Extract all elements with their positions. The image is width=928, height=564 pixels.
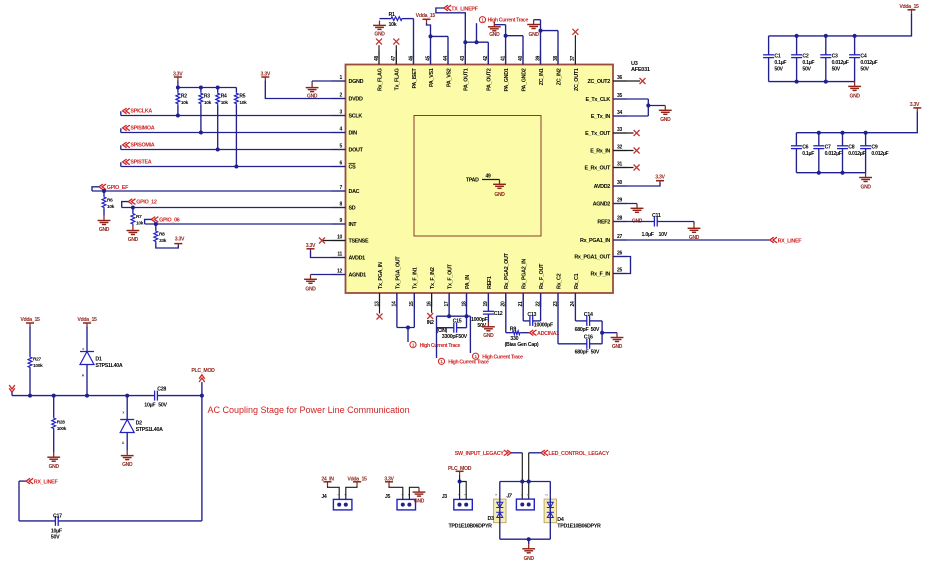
svg-text:C4: C4 xyxy=(860,54,866,60)
resistor R7 10k xyxy=(131,208,144,227)
svg-text:C17: C17 xyxy=(53,514,62,520)
svg-text:AFE031: AFE031 xyxy=(631,67,650,73)
svg-text:Vdda_15: Vdda_15 xyxy=(416,13,436,19)
wire C14/C16 to ground xyxy=(600,321,617,344)
svg-text:GND: GND xyxy=(483,333,494,339)
svg-text:10k: 10k xyxy=(221,100,229,106)
svg-text:GND: GND xyxy=(128,237,139,243)
svg-text:50V: 50V xyxy=(832,67,841,73)
svg-text:DGND: DGND xyxy=(349,79,364,85)
svg-text:10k: 10k xyxy=(136,221,144,227)
no-connect X pin 47 xyxy=(393,39,399,65)
wire cap bank bottom rail xyxy=(769,80,855,84)
wire PLC_MOD vertical xyxy=(201,382,203,521)
port ADCINA1 xyxy=(529,330,559,337)
svg-text:Tx_F_IN1: Tx_F_IN1 xyxy=(413,267,419,289)
wire cap bank 2 bottom rail xyxy=(796,171,865,175)
svg-text:x: x xyxy=(122,411,124,415)
svg-text:3.3V: 3.3V xyxy=(306,243,316,249)
svg-text:Rx_F_IN: Rx_F_IN xyxy=(591,271,611,277)
svg-text:J4: J4 xyxy=(321,494,327,500)
svg-text:SPISOMIA: SPISOMIA xyxy=(130,143,154,149)
diode D2 STPS1L40A xyxy=(120,396,163,451)
svg-text:D4: D4 xyxy=(557,517,564,523)
wire pin 12 AGND1 to ground xyxy=(311,274,346,276)
no-connect X pin 37 xyxy=(572,29,578,65)
svg-text:ZC_IN2: ZC_IN2 xyxy=(556,68,562,85)
wire pin 27 Rx_PGA1_IN to RX_LINEF xyxy=(613,239,770,241)
port LED_CONTROL_LEGACY xyxy=(541,450,610,457)
svg-text:R27: R27 xyxy=(33,357,42,363)
no-connect X pin 33 xyxy=(613,130,640,136)
capacitor C14 680pF 50V xyxy=(575,293,603,333)
svg-text:C12: C12 xyxy=(494,311,503,317)
power 3.3V (AVDD2) xyxy=(655,175,665,183)
power 3.3V (DVDD) xyxy=(261,71,271,80)
capacitor C1 0.1µF 50V xyxy=(763,36,786,82)
wire J3 pins to PLC_MOD xyxy=(458,475,467,500)
svg-text:DVDD: DVDD xyxy=(349,96,363,102)
svg-text:E_Tx_IN: E_Tx_IN xyxy=(591,114,611,120)
ESD diode D4 TPD1E10B06DPYR xyxy=(544,482,601,540)
wire 3.3V to pin 30 AVDD2 xyxy=(613,183,660,187)
connector J5 xyxy=(385,494,416,510)
svg-text:ADCINA1: ADCINA1 xyxy=(537,331,559,337)
wire SPISIMOA to IC xyxy=(121,132,346,134)
pin 49 TPAD with ground xyxy=(466,173,506,198)
svg-text:R6: R6 xyxy=(107,198,113,204)
power PLC_MOD (J3) xyxy=(448,466,472,475)
svg-text:PA_IN: PA_IN xyxy=(465,275,471,289)
svg-text:50V: 50V xyxy=(802,67,811,73)
svg-text:GND: GND xyxy=(307,93,318,99)
svg-text:TPAD: TPAD xyxy=(466,178,479,184)
wire Rx_PGA1_OUT to Rx_F_IN xyxy=(613,257,631,274)
power 3.3V (cap bank 2) xyxy=(910,102,922,112)
wire Vdda_15 to pins 45,44 xyxy=(427,23,449,65)
connector J4 xyxy=(321,494,352,510)
wire Vdda_15 cap bank rail xyxy=(769,13,912,38)
wire SW_INPUT_LEGACY down xyxy=(511,453,524,499)
svg-text:IN2: IN2 xyxy=(427,320,434,326)
svg-text:A: A xyxy=(122,441,125,445)
IC U3 AFE031 xyxy=(332,51,650,308)
svg-text:J5: J5 xyxy=(385,494,391,500)
svg-text:3.3V: 3.3V xyxy=(910,102,920,108)
ground (DGND) xyxy=(306,81,319,99)
svg-text:Rx_C2: Rx_C2 xyxy=(556,273,562,289)
wire 3.3V cap bank rail xyxy=(796,111,917,134)
svg-text:34: 34 xyxy=(617,110,622,116)
no-connect X pin 13 xyxy=(377,293,383,320)
wire SPISTEA to IC xyxy=(121,166,346,168)
power 3.3V (SPI pull-ups) xyxy=(173,71,183,80)
connector J7 xyxy=(506,493,534,510)
svg-text:10k: 10k xyxy=(181,100,189,106)
svg-text:0.012µF: 0.012µF xyxy=(871,151,888,157)
wire SPISOMIA to IC xyxy=(121,149,346,151)
marker High Current Trace (3) xyxy=(473,353,524,360)
svg-text:28: 28 xyxy=(617,216,622,222)
svg-text:E_Tx_OUT: E_Tx_OUT xyxy=(585,131,611,137)
svg-text:R1: R1 xyxy=(389,12,396,18)
port SPISTEA xyxy=(121,159,152,166)
svg-text:100k: 100k xyxy=(33,363,43,369)
svg-text:50V: 50V xyxy=(591,350,600,356)
svg-text:10k: 10k xyxy=(389,22,397,28)
svg-text:x: x xyxy=(82,347,84,351)
svg-text:R2: R2 xyxy=(181,94,187,100)
svg-text:RX_LINEF: RX_LINEF xyxy=(34,480,59,486)
svg-text:SD: SD xyxy=(349,205,356,211)
capacitor C9 0.012µF xyxy=(860,133,888,173)
svg-text:SPISTEA: SPISTEA xyxy=(130,160,151,166)
svg-text:R3: R3 xyxy=(204,94,210,100)
capacitor C12 1000pF 50V xyxy=(471,293,503,329)
resistor R8 33k xyxy=(154,224,167,244)
port SPISOMIA xyxy=(121,142,155,149)
svg-text:GND: GND xyxy=(849,94,860,100)
svg-text:R9: R9 xyxy=(510,327,517,333)
capacitor C11 1.0uF xyxy=(642,213,695,238)
svg-text:CS: CS xyxy=(349,164,357,170)
wire TX_LINEPF to pins 43,42 xyxy=(436,8,488,65)
wire SPICLKA to IC xyxy=(121,115,346,117)
svg-text:PA_OUT1: PA_OUT1 xyxy=(464,68,470,91)
diode D1 STPS1L40A xyxy=(80,327,123,396)
marker High Current Trace (top) xyxy=(479,17,528,24)
svg-text:0.1µF: 0.1µF xyxy=(802,151,814,157)
resistor R5 10k xyxy=(234,88,247,169)
svg-text:PA_GND1: PA_GND1 xyxy=(504,68,510,91)
resistor R2 10k xyxy=(176,88,189,118)
svg-text:3.3V: 3.3V xyxy=(655,175,665,181)
svg-text:GPIO_EF: GPIO_EF xyxy=(107,185,129,191)
wire GPIO_12 to pin 8 SD xyxy=(122,206,346,210)
svg-text:C28: C28 xyxy=(157,386,166,392)
svg-text:GND: GND xyxy=(414,499,425,505)
svg-text:Vdda_15: Vdda_15 xyxy=(77,317,97,323)
svg-text:Rx_C1: Rx_C1 xyxy=(574,273,580,289)
svg-text:TSENSE: TSENSE xyxy=(349,238,369,244)
port GPIO_EF xyxy=(92,184,129,191)
svg-text:33k: 33k xyxy=(159,238,167,244)
svg-text:D3: D3 xyxy=(488,516,495,522)
ground (C6-C9) xyxy=(859,173,872,191)
resistor R6 10k xyxy=(102,191,115,216)
no-connect X pin 16 xyxy=(427,293,434,326)
svg-text:C7: C7 xyxy=(825,145,831,151)
ground (AGND1) xyxy=(304,275,317,293)
wire REF2 to C11 xyxy=(613,221,654,223)
ground (R28) xyxy=(47,452,60,469)
wire R1 to pin 46 xyxy=(413,19,415,65)
resistor R28 100k xyxy=(52,396,67,453)
svg-text:10µF: 10µF xyxy=(51,528,63,534)
ground (AGND2) xyxy=(631,204,644,225)
svg-text:TPD1E10B06DPYR: TPD1E10B06DPYR xyxy=(449,524,493,530)
svg-text:Rx_PGA1_IN: Rx_PGA1_IN xyxy=(580,238,610,244)
svg-text:ZC_OUT1: ZC_OUT1 xyxy=(574,68,580,91)
capacitor C28 10uF 50V xyxy=(144,386,167,408)
svg-text:GND: GND xyxy=(612,344,623,350)
svg-text:TX_LINEPF: TX_LINEPF xyxy=(451,6,478,12)
marker High Current Trace (1) xyxy=(410,342,461,349)
svg-text:C2: C2 xyxy=(802,54,808,60)
svg-text:25: 25 xyxy=(617,268,622,274)
ground (ZC_IN) xyxy=(527,20,540,38)
svg-text:0.012µF: 0.012µF xyxy=(825,151,842,157)
svg-text:C13: C13 xyxy=(527,312,536,318)
no-connect X pin 48 xyxy=(376,39,382,65)
wire pin 29 AGND2 to ground xyxy=(613,203,637,205)
power 24_IN xyxy=(321,476,334,485)
svg-text:32: 32 xyxy=(617,145,622,151)
capacitor C2 0.1µF 50V xyxy=(791,36,814,82)
svg-text:GND: GND xyxy=(489,32,500,38)
svg-text:0.1µF: 0.1µF xyxy=(802,60,814,66)
svg-text:TPD1E10B06DPYR: TPD1E10B06DPYR xyxy=(557,524,601,530)
svg-text:PLC_MOD: PLC_MOD xyxy=(191,368,215,374)
svg-text:D1: D1 xyxy=(95,357,102,363)
ground (ESD) xyxy=(522,544,535,562)
wire ESD top rail xyxy=(500,481,551,483)
marker High Current Trace (2) xyxy=(438,358,489,365)
ground (R6) xyxy=(98,216,111,233)
svg-text:Tx_F_IN2: Tx_F_IN2 xyxy=(430,267,436,289)
wire 3.3V to pin 11 AVDD1 xyxy=(311,251,346,258)
resistor R9 330 xyxy=(506,293,530,342)
port SW_INPUT_LEGACY xyxy=(455,450,511,457)
svg-text:50V: 50V xyxy=(860,67,869,73)
svg-text:C11: C11 xyxy=(652,213,661,219)
svg-text:E_Rx_OUT: E_Rx_OUT xyxy=(585,165,611,171)
svg-text:GND: GND xyxy=(49,464,60,470)
svg-text:50V: 50V xyxy=(591,327,600,333)
svg-text:50V: 50V xyxy=(458,334,467,340)
label AC Coupling Stage xyxy=(208,405,410,415)
ground (R1 top-left) xyxy=(373,21,386,38)
svg-text:(Bias Gen Cap): (Bias Gen Cap) xyxy=(505,342,539,348)
power Vdda_15 (PA_VS) xyxy=(416,13,436,23)
svg-text:50V: 50V xyxy=(158,403,167,409)
svg-text:11: 11 xyxy=(337,252,342,258)
wire ZC_IN1/ZC_IN2 to ground xyxy=(534,20,558,65)
power 3.3V (J5) xyxy=(384,476,394,485)
power PLC_MOD (AC stage) xyxy=(191,368,215,382)
svg-text:Tx_FLAG: Tx_FLAG xyxy=(395,68,401,90)
svg-text:0.1µF: 0.1µF xyxy=(774,60,786,66)
svg-text:SPICLKA: SPICLKA xyxy=(130,109,152,115)
no-connect X pin 31 xyxy=(613,165,640,171)
resistor R4 10k xyxy=(216,88,229,152)
power 3.3V (R8 pull) xyxy=(174,237,185,245)
ground (C1-C4) xyxy=(848,82,861,100)
svg-text:R7: R7 xyxy=(136,214,142,220)
svg-text:10k: 10k xyxy=(107,204,115,210)
svg-text:10k: 10k xyxy=(204,100,212,106)
svg-text:50V: 50V xyxy=(774,67,783,73)
svg-text:GND: GND xyxy=(305,287,316,293)
svg-text:Vdda_15: Vdda_15 xyxy=(899,4,919,10)
svg-text:35: 35 xyxy=(617,93,622,99)
capacitor C3 0.012µF 50V xyxy=(820,36,848,82)
svg-text:3.3V: 3.3V xyxy=(175,237,185,243)
wire pin 1 DGND to ground xyxy=(312,80,345,82)
svg-text:Tx_PGA_OUT: Tx_PGA_OUT xyxy=(395,256,401,289)
svg-text:C14: C14 xyxy=(584,312,593,318)
wire GPIO_EF to pin 7 DAC xyxy=(92,189,346,193)
ESD diode D3 TPD1E10B06DPYR xyxy=(449,482,507,540)
power Vdda_15 (D1) xyxy=(77,317,97,327)
svg-text:PA_VS2: PA_VS2 xyxy=(446,68,452,87)
svg-text:Rx_FLAG: Rx_FLAG xyxy=(377,68,383,91)
svg-text:E_Tx_CLK: E_Tx_CLK xyxy=(585,97,610,103)
wire 3.3V rail to pull-ups xyxy=(176,81,237,90)
wire J4 pin2 to Vdda_15 xyxy=(346,485,357,499)
svg-text:10µF: 10µF xyxy=(144,403,156,409)
label Bias Gen Cap xyxy=(505,342,539,348)
capacitor C17 10uF 50V xyxy=(51,514,63,541)
svg-text:330: 330 xyxy=(510,336,518,342)
svg-text:STPS1L40A: STPS1L40A xyxy=(136,427,164,433)
svg-text:31: 31 xyxy=(617,162,622,168)
capacitor C16 680pF 50V xyxy=(558,293,602,356)
ground (E_Tx) xyxy=(659,106,672,124)
wire J5 pin1 to 3.3V xyxy=(389,485,403,499)
svg-text:Rx_PGA1_OUT: Rx_PGA1_OUT xyxy=(574,254,611,260)
svg-text:E_Rx_IN: E_Rx_IN xyxy=(590,148,610,154)
port RX_LINEF (AC stage) xyxy=(26,478,58,485)
svg-text:R8: R8 xyxy=(159,232,165,238)
ground (C12) xyxy=(482,322,495,339)
svg-text:GND: GND xyxy=(122,462,133,468)
svg-text:R4: R4 xyxy=(221,94,227,100)
svg-text:ZC_IN1: ZC_IN1 xyxy=(539,68,545,85)
svg-text:1000pF: 1000pF xyxy=(471,317,489,323)
svg-text:30: 30 xyxy=(617,180,622,186)
svg-text:C8: C8 xyxy=(848,145,854,151)
wire ESD bottom rail to ground xyxy=(500,537,551,544)
port GPIO_12 xyxy=(122,199,157,208)
capacitor C15 3300pF (CIN) xyxy=(437,316,468,340)
power Vdda_15 (R27) xyxy=(20,317,40,327)
ground (C11) xyxy=(688,222,701,242)
svg-text:DIN: DIN xyxy=(349,130,358,136)
power Vdda_15 (cap bank) xyxy=(899,4,919,14)
wire PA_GND1/PA_GND2 to ground xyxy=(494,25,523,65)
svg-text:0.012µF: 0.012µF xyxy=(848,151,865,157)
port SPISIMOA xyxy=(121,125,155,132)
svg-text:10000pF: 10000pF xyxy=(534,323,554,329)
ground (R7) xyxy=(127,226,140,243)
power Vdda_15 (J4) xyxy=(347,476,367,485)
wire R8 to 3.3V xyxy=(156,243,179,249)
ground (PA_GND) xyxy=(488,22,501,38)
svg-text:R28: R28 xyxy=(57,420,66,426)
svg-text:GND: GND xyxy=(860,185,871,191)
ground (C14/C16) xyxy=(611,333,624,351)
capacitor C13 10000pF xyxy=(523,293,554,329)
svg-text:STPS1L40A: STPS1L40A xyxy=(95,363,123,369)
wire Tx_F_OUT/PA_IN junction xyxy=(437,293,471,358)
svg-text:AVDD1: AVDD1 xyxy=(349,255,366,261)
svg-text:LED_CONTROL_LEGACY: LED_CONTROL_LEGACY xyxy=(548,451,609,457)
resistor R3 10k xyxy=(199,88,212,135)
svg-text:PA_VS1: PA_VS1 xyxy=(429,68,435,87)
svg-text:Tx_PGA_IN: Tx_PGA_IN xyxy=(378,262,384,289)
svg-text:AGND2: AGND2 xyxy=(593,201,611,207)
no-connect X pin 36 ZC_OUT2 xyxy=(613,78,646,84)
svg-text:Tx_F_OUT: Tx_F_OUT xyxy=(448,263,454,289)
svg-text:GND: GND xyxy=(494,192,505,198)
svg-text:GND: GND xyxy=(524,556,535,562)
wire GPIO_06 to pin 9 INT xyxy=(145,222,346,226)
svg-text:RX_LINEF: RX_LINEF xyxy=(778,239,803,245)
svg-text:SW_INPUT_LEGACY: SW_INPUT_LEGACY xyxy=(455,451,505,457)
svg-text:A: A xyxy=(82,374,85,378)
svg-text:100k: 100k xyxy=(57,426,67,432)
svg-text:INT: INT xyxy=(349,222,358,228)
svg-text:High Current Trace: High Current Trace xyxy=(482,354,523,360)
svg-text:29: 29 xyxy=(617,198,622,204)
svg-text:REF2: REF2 xyxy=(597,219,610,225)
svg-text:D2: D2 xyxy=(136,421,143,427)
port (down, AC stage left) xyxy=(9,385,15,396)
svg-text:Vdda_15: Vdda_15 xyxy=(20,317,40,323)
svg-text:GND: GND xyxy=(99,227,110,233)
svg-text:Rx_PGA2_OUT: Rx_PGA2_OUT xyxy=(504,252,510,289)
connector J3 xyxy=(442,494,473,510)
svg-text:C1: C1 xyxy=(774,54,780,60)
svg-text:DOUT: DOUT xyxy=(349,147,364,153)
ground (D2) xyxy=(121,451,134,468)
svg-text:36: 36 xyxy=(617,75,622,81)
no-connect X pin 10 TSENSE xyxy=(319,238,346,244)
svg-text:PA_GND2: PA_GND2 xyxy=(521,68,527,91)
svg-text:10V: 10V xyxy=(659,232,668,238)
wire E_Tx_CLK/E_Tx_IN to ground xyxy=(613,99,665,116)
wire 3.3V to pin 2 DVDD xyxy=(265,81,345,99)
port RX_LINEF (right) xyxy=(770,237,802,244)
capacitor C4 0.012µF 50V xyxy=(849,36,877,82)
capacitor C6 0.1µF xyxy=(791,133,814,173)
svg-text:SCLK: SCLK xyxy=(349,113,363,119)
svg-text:ZC_OUT2: ZC_OUT2 xyxy=(588,79,611,85)
svg-text:High Current Trace: High Current Trace xyxy=(420,343,461,349)
svg-text:27: 27 xyxy=(617,234,622,240)
svg-text:REF1: REF1 xyxy=(487,276,493,289)
svg-text:12: 12 xyxy=(337,269,342,275)
svg-text:C6: C6 xyxy=(802,145,808,151)
port SPICLKA xyxy=(121,108,153,115)
svg-text:R5: R5 xyxy=(239,94,245,100)
wire AC bottom line xyxy=(19,481,202,521)
port GPIO_06 xyxy=(145,217,180,224)
ground (J5) xyxy=(413,487,426,504)
svg-text:AC Coupling Stage for Power Li: AC Coupling Stage for Power Line Communi… xyxy=(208,405,410,415)
svg-text:0.012µF: 0.012µF xyxy=(832,60,849,66)
wire Tx_PGA_OUT/Tx_F_IN1 junction xyxy=(397,293,414,342)
wire LED_CONTROL_LEGACY down xyxy=(527,453,541,499)
resistor R27 100k xyxy=(28,327,43,396)
svg-text:DAC: DAC xyxy=(349,189,360,195)
capacitor C7 0.012µF xyxy=(813,133,841,173)
svg-text:GND: GND xyxy=(374,31,385,37)
resistor R1 10k xyxy=(380,12,414,28)
svg-text:Rx_PGA2_IN: Rx_PGA2_IN xyxy=(522,259,528,289)
svg-text:C9: C9 xyxy=(871,145,877,151)
